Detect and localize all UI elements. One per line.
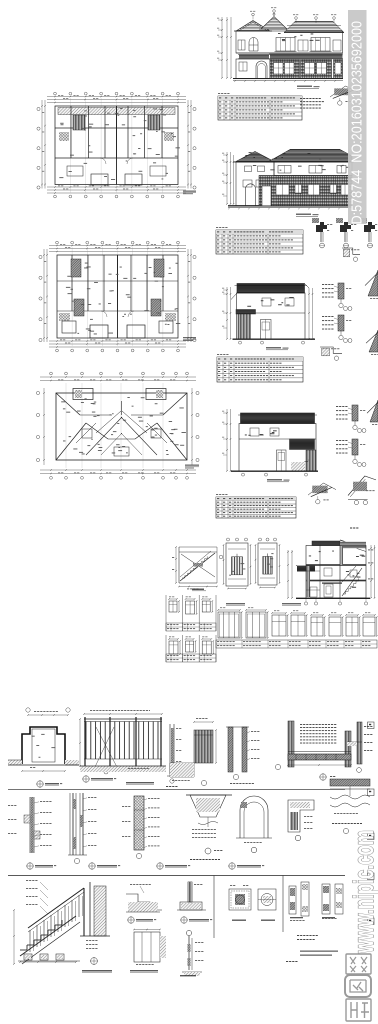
eave detail cluster B1 [312, 218, 332, 248]
roof wedge right edge C3 [365, 270, 378, 299]
roof ridge detail (top right) [330, 86, 358, 105]
roof detail D2 (annotated) [336, 439, 366, 467]
window mullion section C-C [289, 882, 309, 921]
title: railing elevation [83, 776, 154, 785]
roof wedge right edge C4 [366, 330, 378, 355]
rear elevation (背立面图) [222, 150, 354, 217]
material table 1 (正立面) [218, 93, 302, 120]
material table 3 (侧立面) [217, 354, 303, 382]
eave detail cluster B4 [342, 248, 360, 261]
front elevation (正立面图) [217, 7, 344, 88]
roof detail C1 (annotated) [322, 283, 352, 311]
door/window schedule small cells (left block) [166, 595, 216, 662]
6-6 section small (row4) [180, 930, 203, 976]
window sill corner detail [170, 718, 217, 786]
eave detail cluster B3 [360, 218, 378, 248]
roof detail D1 (annotated) [336, 405, 366, 433]
stair plan titles [226, 603, 301, 605]
window jamb tall detail (row2 c2) [68, 793, 96, 864]
floor plan: first floor (一层平面图) [37, 92, 196, 198]
floor-wall junction detail (big, row1 right) [275, 721, 351, 780]
svg-text:www.nipic.com: www.nipic.com [348, 830, 378, 954]
floor plan: second floor (二层平面图) [39, 241, 196, 352]
svg-text:ID:578744 NO:2016031023569200: ID:578744 NO:20160310235692000 [350, 21, 366, 228]
right edge reference boxes [368, 722, 375, 925]
balcony plan detail (阳台平面) [8, 708, 79, 772]
bracket corner detail (row2 c6) [288, 800, 314, 841]
railing elevation detail (锌钢栏杆) [79, 710, 166, 774]
railing install plan (row4) [130, 929, 166, 973]
interior wall detail (内墙大样) [229, 885, 251, 921]
roof detail C5 [320, 347, 342, 360]
stair railing large detail (楼梯栏杆大样) [13, 880, 110, 965]
material table 4 (侧立面2) [216, 494, 296, 518]
wall plug detail (row2 c1) [8, 797, 52, 853]
row1 right wall section with leaders [347, 722, 372, 772]
watermark: nipic.com outlined text (bottom right) [348, 830, 378, 954]
window mullion section 4-4 [322, 884, 343, 919]
roof detail C2 (annotated) [322, 315, 352, 343]
watermark: nipic chinese logo glyphs [345, 954, 371, 1021]
exterior wall detail (外墙大样) [258, 889, 276, 921]
stair plan 2 (楼梯2) [255, 538, 281, 588]
step construction detail A (row3) [126, 884, 162, 923]
title: stair railing [82, 958, 112, 973]
post fixing detail B (row3) [177, 882, 212, 923]
right side elevation (侧立面图2) [222, 409, 318, 482]
title: balcony plan [37, 781, 62, 787]
material table 2 (背立面) [216, 227, 303, 254]
roof gutter wavy detail (row2 right) [330, 779, 370, 834]
building cross-section 1-1 (1-1剖面图) [287, 528, 375, 606]
thin wall post detail (row1) [166, 724, 181, 787]
notes text block (row3 right) [286, 935, 338, 962]
roof detail D4 [348, 476, 376, 505]
row2 titles [27, 863, 264, 869]
stair section detail (楼梯剖面) [172, 546, 223, 591]
door arch frame detail (row2 c5) [236, 796, 272, 853]
left side elevation (侧立面图) [222, 284, 315, 350]
detail sheet divider lines [8, 789, 345, 938]
roof detail D3 [308, 483, 336, 504]
stair handrail wall detail [226, 727, 259, 784]
notes beside table 1 [300, 98, 324, 109]
hatched column detail (row2 c3) [122, 796, 160, 859]
roof wedge right edge D2b [367, 400, 378, 425]
roof plan (屋顶平面图) [36, 372, 199, 479]
eave detail cluster B2 [336, 218, 356, 248]
stair plan 1 (楼梯1) [223, 538, 252, 589]
watermark: gray ID band (top right) [348, 10, 367, 228]
door/window schedule main row [216, 607, 378, 648]
balcony drainage detail (row2 c4) [186, 795, 232, 860]
